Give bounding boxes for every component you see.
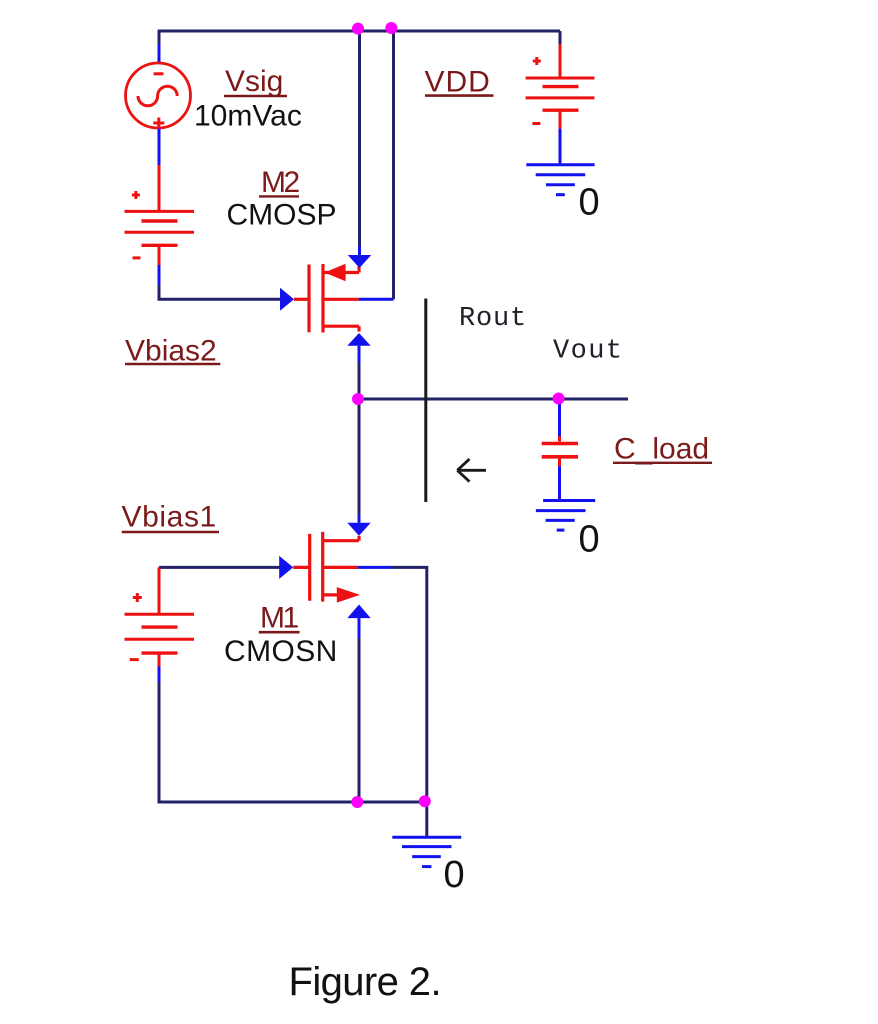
node output junction dot <box>352 393 364 405</box>
wire VDD branch from top rail <box>559 31 562 46</box>
wire Vbias1 to M1 gate <box>159 566 280 569</box>
battery VDD <box>526 57 595 129</box>
M2 bulk stub blue part <box>359 298 394 301</box>
M1 source arrow (red, pointing right) <box>337 587 360 603</box>
pin arrow down into M2 source <box>348 255 371 268</box>
wire bottom ground stem <box>425 802 428 837</box>
wire M2 source vertical from top rail <box>358 31 361 246</box>
capacitor C_load <box>542 444 578 467</box>
svg-text:VDD: VDD <box>425 65 491 98</box>
wire left vertical top (to Vsig) <box>158 31 161 64</box>
svg-text:Vout: Vout <box>553 337 623 367</box>
wire output node down to M1 drain <box>358 399 361 517</box>
AC source Vsig <box>126 63 191 129</box>
svg-text:CMOSP: CMOSP <box>227 199 337 232</box>
wire M1 source down to bottom rail <box>358 618 361 640</box>
svg-text:Rout: Rout <box>459 304 527 334</box>
node Vout junction dot <box>553 393 565 405</box>
ground 0 (under C_load) <box>536 501 595 531</box>
M1 bulk stub blue + wire to right vertical <box>358 566 392 569</box>
svg-text:M2: M2 <box>261 166 299 199</box>
wire Vsig bottom to battery <box>158 129 161 166</box>
node top rail junction dot (M2 bulk branch) <box>385 22 397 34</box>
node bottom rail junction dot (M1 source branch) <box>351 796 363 808</box>
ground 0 (top right) <box>526 165 594 195</box>
wire output horizontal (Vout net) <box>358 398 628 401</box>
svg-text:0: 0 <box>579 519 600 561</box>
svg-text:Vbias2: Vbias2 <box>125 335 217 368</box>
pin arrow into M2 gate <box>280 288 294 311</box>
svg-text:Vsig: Vsig <box>225 65 283 98</box>
transistor M2 (PMOS CMOSP) <box>294 264 359 333</box>
pin arrow down into M1 drain <box>347 523 370 536</box>
wire VDD battery to ground <box>559 129 562 165</box>
wire Vbias1 battery down to bottom rail <box>158 667 161 685</box>
pin arrow up into M2 drain <box>347 333 370 346</box>
wire battery to M2 gate <box>158 265 161 298</box>
Rout marker line <box>424 299 427 503</box>
svg-text:0: 0 <box>444 854 465 896</box>
svg-text:10mVac: 10mVac <box>194 99 302 132</box>
M2 source body arrow (red, pointing left) <box>325 264 346 282</box>
node bottom rail junction dot (ground branch) <box>419 795 431 807</box>
wire Vout down to C_load <box>558 399 561 436</box>
svg-text:Vbias1: Vbias1 <box>122 500 217 533</box>
svg-text:Figure 2.: Figure 2. <box>289 960 441 1004</box>
node top rail junction dot (M2 source branch) <box>352 23 364 35</box>
wire top rail <box>158 30 560 33</box>
ground 0 (bottom) <box>392 837 461 866</box>
svg-text:0: 0 <box>579 182 600 224</box>
wire M2 bulk vertical from top rail <box>392 31 395 299</box>
transistor M1 (NMOS CMOSN) <box>293 532 359 602</box>
battery (under Vsig, Vbias2) <box>125 191 195 265</box>
battery Vbias1 <box>125 593 195 667</box>
wire C_load to ground <box>558 466 561 500</box>
svg-text:CMOSN: CMOSN <box>224 635 338 668</box>
svg-text:C_load: C_load <box>614 433 709 466</box>
pin arrow into M1 gate <box>279 556 293 579</box>
arrow annotation (left arrow) <box>457 459 486 482</box>
pin arrow up into M1 source <box>347 605 370 619</box>
wire M2 drain down to output node <box>358 346 361 365</box>
svg-text:M1: M1 <box>260 602 298 635</box>
